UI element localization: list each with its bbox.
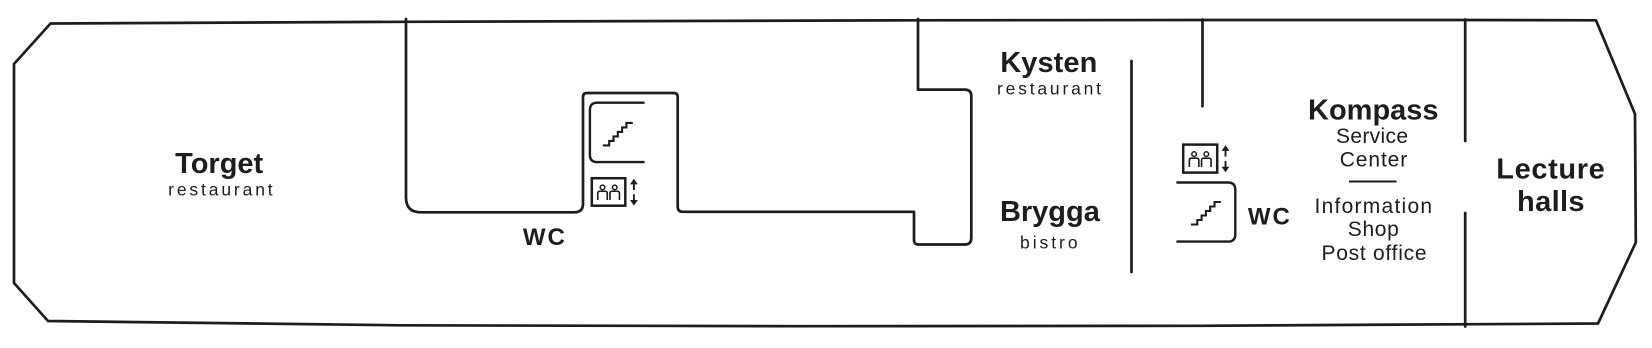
elevator up arrow (right) [1222, 145, 1230, 151]
svg-text:restaurant: restaurant [168, 179, 273, 199]
stairs steps (right) [1191, 202, 1221, 225]
elevator person 2 head (right) [1204, 152, 1209, 157]
lecture halls wall upper segment [1464, 20, 1467, 142]
svg-text:WC: WC [523, 224, 565, 251]
elevator person 1 head (right) [1192, 152, 1197, 157]
stairs enclosure (mid, open right) [590, 103, 645, 162]
elevator person 1 head (mid) [600, 185, 605, 190]
stairs enclosure (right, open left) [1176, 183, 1235, 242]
elevator box (right) [1183, 145, 1217, 173]
partition divider between Kysten-Brygga and Kompass area [1130, 61, 1133, 272]
svg-text:bistro: bistro [1020, 233, 1078, 253]
svg-text:WC: WC [1248, 204, 1290, 231]
elevator person 2 body (mid) [610, 191, 620, 200]
svg-text:Service: Service [1336, 125, 1408, 148]
svg-text:Torget: Torget [175, 148, 263, 180]
svg-text:Post office: Post office [1322, 242, 1427, 265]
lecture halls wall lower segment [1464, 213, 1467, 327]
elevator up arrow (mid) [630, 179, 638, 185]
elevator person 2 head (mid) [612, 185, 617, 190]
elevator person 2 body (right) [1202, 158, 1212, 167]
svg-text:halls: halls [1517, 186, 1585, 218]
svg-text:Lecture: Lecture [1496, 154, 1605, 186]
elevator down arrow (right) [1222, 167, 1230, 173]
svg-text:Shop: Shop [1348, 218, 1399, 241]
kompass mini divider [1349, 181, 1397, 183]
svg-text:Kompass: Kompass [1308, 94, 1439, 126]
elevator person 1 body (right) [1189, 158, 1199, 167]
wall: Torget partition / stairwell bump / vestibule shaft [406, 19, 971, 245]
svg-text:Kysten: Kysten [1000, 47, 1097, 79]
elevator box (mid) [592, 178, 626, 206]
svg-text:restaurant: restaurant [997, 78, 1101, 98]
elevator down arrow (mid) [630, 200, 638, 206]
elevator person 1 body (mid) [598, 191, 608, 200]
svg-text:Center: Center [1340, 149, 1408, 172]
stairs steps (mid) [603, 123, 633, 146]
svg-text:Information: Information [1315, 195, 1433, 218]
wall stub below top edge at x=1202 [1201, 20, 1204, 107]
svg-text:Brygga: Brygga [1000, 196, 1101, 228]
